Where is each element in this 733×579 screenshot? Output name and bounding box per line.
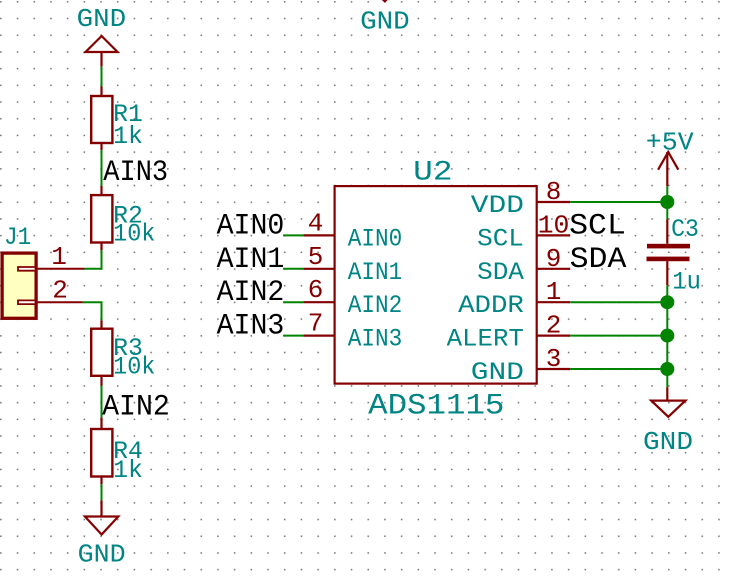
- svg-text:SCL: SCL: [569, 208, 626, 242]
- svg-text:AIN2: AIN2: [217, 275, 285, 309]
- svg-text:SDA: SDA: [570, 242, 627, 276]
- svg-text:10k: 10k: [113, 221, 155, 248]
- svg-text:VDD: VDD: [471, 193, 524, 220]
- svg-text:J1: J1: [4, 225, 31, 252]
- svg-text:6: 6: [308, 275, 324, 305]
- svg-text:8: 8: [546, 177, 562, 207]
- svg-text:1: 1: [51, 242, 67, 272]
- svg-text:AIN3: AIN3: [103, 155, 168, 189]
- svg-text:2: 2: [52, 276, 68, 306]
- svg-text:GND: GND: [360, 8, 410, 37]
- svg-text:AIN2: AIN2: [348, 293, 403, 320]
- svg-text:1u: 1u: [672, 270, 701, 297]
- svg-text:U2: U2: [413, 157, 452, 188]
- svg-text:4: 4: [308, 208, 324, 238]
- svg-text:9: 9: [546, 244, 562, 274]
- svg-text:C3: C3: [671, 217, 699, 244]
- svg-text:1k: 1k: [113, 458, 143, 485]
- svg-text:1k: 1k: [113, 124, 143, 151]
- svg-text:AIN1: AIN1: [217, 242, 285, 276]
- svg-text:AIN3: AIN3: [217, 309, 285, 343]
- svg-text:5: 5: [308, 242, 324, 272]
- svg-text:GND: GND: [78, 540, 126, 569]
- svg-text:AIN0: AIN0: [348, 226, 403, 253]
- svg-text:AIN2: AIN2: [102, 390, 170, 424]
- svg-text:GND: GND: [643, 428, 693, 457]
- svg-text:AIN1: AIN1: [348, 260, 403, 287]
- svg-text:ADS1115: ADS1115: [368, 390, 504, 424]
- svg-text:SDA: SDA: [477, 260, 524, 287]
- svg-text:1: 1: [546, 277, 562, 307]
- svg-text:ADDR: ADDR: [458, 293, 524, 320]
- svg-text:7: 7: [308, 309, 324, 339]
- svg-text:3: 3: [546, 344, 562, 374]
- svg-text:GND: GND: [471, 360, 524, 387]
- svg-text:AIN0: AIN0: [217, 208, 285, 242]
- svg-text:10k: 10k: [113, 354, 155, 381]
- svg-text:2: 2: [546, 311, 562, 341]
- svg-text:GND: GND: [77, 5, 127, 34]
- svg-text:SCL: SCL: [477, 226, 524, 253]
- svg-text:ALERT: ALERT: [447, 327, 524, 354]
- svg-text:10: 10: [538, 210, 570, 240]
- svg-text:AIN3: AIN3: [348, 327, 403, 354]
